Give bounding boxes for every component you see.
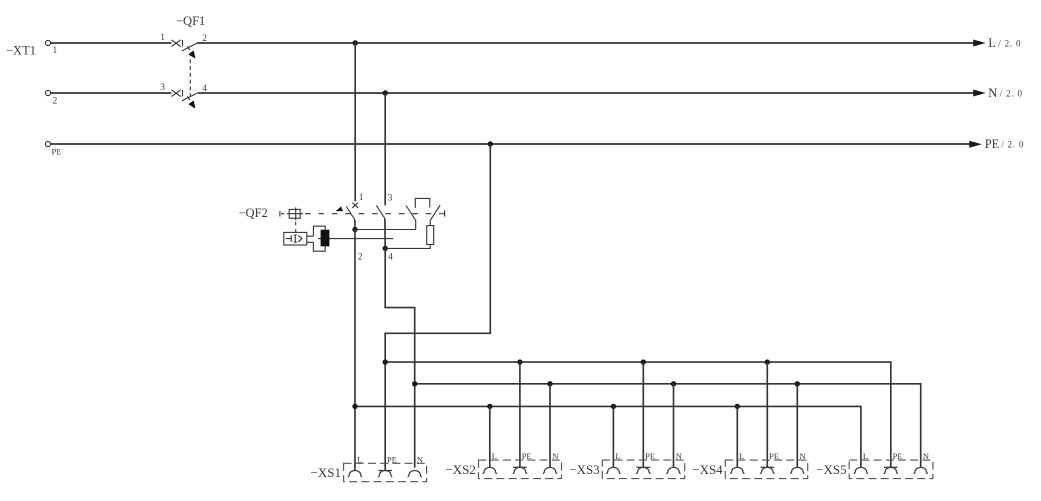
svg-text:−XS1: −XS1 [311, 465, 341, 480]
QF2 test switch left blade [406, 206, 416, 221]
svg-text:4: 4 [202, 84, 207, 94]
label N / 2.0 [988, 86, 1023, 100]
label PE / 2.0 [985, 137, 1025, 151]
QF2 pole 2 contact [376, 193, 392, 218]
node PE bus junction [488, 141, 493, 146]
QF2 CT core [321, 230, 330, 247]
QF2 test button square [287, 207, 303, 220]
svg-text:L: L [739, 451, 744, 461]
wire N feed down with jog [385, 248, 415, 467]
arrow N outgoing [973, 90, 986, 97]
svg-text:2: 2 [53, 96, 58, 106]
socket -XS2 PE contact [513, 466, 527, 468]
svg-text:PE: PE [387, 454, 397, 464]
QF2 test resistor [429, 220, 431, 225]
svg-text:−QF2: −QF2 [239, 206, 268, 220]
node N dist XS4 [795, 381, 800, 386]
node PE dist XS4 [765, 359, 770, 364]
socket -XS3 box [602, 460, 684, 479]
svg-text:2: 2 [202, 34, 207, 44]
socket -XS4 box [725, 460, 807, 479]
svg-text:N: N [417, 454, 423, 464]
node N dist XS1 [412, 381, 417, 386]
wire PE bus [51, 143, 971, 145]
svg-text:/ 2. 0: / 2. 0 [998, 38, 1021, 48]
arrow L outgoing [973, 40, 986, 47]
wire XS3 PE drop [642, 362, 644, 467]
wire XS4 L drop [736, 406, 738, 467]
wire XS2 N drop [549, 384, 551, 468]
QF2 test circuit wire from L out [355, 220, 416, 230]
node PE dist XS3 [641, 359, 646, 364]
QF2 linkage arrow [337, 207, 343, 211]
linkage QF1 dashed [189, 53, 191, 101]
svg-text:PE: PE [769, 451, 779, 461]
socket -XS4 PE contact [761, 466, 775, 468]
node L dist XS2 [487, 404, 492, 409]
svg-text:N: N [552, 451, 558, 461]
socket -XS4 N contact [790, 467, 804, 473]
socket -XS3 N contact [666, 467, 680, 473]
svg-text:−QF1: −QF1 [176, 14, 205, 28]
svg-text:PE: PE [893, 451, 903, 461]
socket -XS5 box [849, 460, 933, 479]
QF2 pole 1 contact [346, 193, 363, 220]
svg-text:−XS3: −XS3 [569, 462, 599, 477]
wire XS4 N drop [796, 384, 798, 468]
wire XS3 N drop [673, 384, 675, 468]
svg-text:−XS5: −XS5 [816, 462, 846, 477]
node PE dist XS1 [383, 359, 388, 364]
socket -XS3 PE contact [637, 466, 651, 468]
QF2 mechanism left tick [280, 211, 285, 217]
socket -XS2 L contact [483, 467, 497, 473]
wire PE feed down [385, 144, 490, 471]
wire N bus [51, 92, 975, 94]
arrow PE outgoing [969, 141, 982, 148]
socket -XS1 N contact [408, 471, 422, 477]
QF2 CT outline [313, 226, 325, 251]
wire L feed down to sockets [354, 230, 356, 471]
N distribution line [415, 384, 921, 468]
wire XS4 PE drop [766, 362, 768, 467]
svg-text:L: L [615, 451, 620, 461]
svg-text:L: L [863, 451, 868, 461]
terminal -XT1:2 [45, 90, 50, 95]
socket -XS3 L contact [606, 467, 620, 473]
socket -XS2 box [479, 460, 562, 479]
node QF2 N out [383, 246, 388, 251]
wire XS2 L drop [489, 406, 491, 467]
node L dist XS3 [611, 404, 616, 409]
node N dist XS3 [671, 381, 676, 386]
QF2 test bridge [415, 198, 430, 208]
svg-text:L: L [988, 36, 996, 50]
node N dist XS2 [547, 381, 552, 386]
svg-text:L: L [492, 451, 497, 461]
svg-text:−XS2: −XS2 [445, 462, 475, 477]
svg-text:N: N [800, 451, 806, 461]
wire XS3 L drop [612, 406, 614, 467]
svg-text:N: N [923, 451, 929, 461]
svg-text:L: L [357, 454, 362, 464]
socket -XS2 N contact [543, 467, 557, 473]
svg-text:PE: PE [522, 451, 532, 461]
svg-text:1: 1 [53, 46, 58, 56]
label L / 2.0 [988, 36, 1021, 50]
QF2 CT primary line [318, 238, 393, 240]
node L bus junction [353, 40, 358, 45]
socket -XS1 box [344, 463, 427, 481]
svg-text:PE: PE [985, 137, 1000, 151]
svg-text:PE: PE [52, 146, 62, 156]
terminal -XT1:1 [45, 40, 50, 45]
socket -XS1 PE contact [378, 470, 392, 472]
QF2 test resistor return wire [388, 245, 430, 249]
QF2 linkage dashed [305, 213, 441, 215]
node QF2 L out [352, 227, 357, 232]
PE distribution line [385, 362, 891, 467]
socket -XS5 N contact [914, 467, 928, 473]
svg-text:−XT1: −XT1 [6, 44, 36, 58]
svg-text:−XS4: −XS4 [692, 462, 723, 477]
svg-text:N: N [988, 86, 997, 100]
svg-text:3: 3 [388, 193, 393, 203]
svg-text:N: N [676, 451, 682, 461]
QF2 test switch right blade [430, 205, 440, 220]
socket -XS4 L contact [730, 467, 744, 473]
svg-text:/ 2. 0: / 2. 0 [1000, 88, 1023, 98]
wire XS2 PE drop [519, 362, 521, 467]
terminal -XT1:PE [45, 141, 50, 146]
QF2 pole 1 output wire [354, 220, 356, 230]
breaker QF1 pole 1-2 [160, 33, 207, 58]
socket -XS1 L contact [348, 471, 362, 477]
svg-text:/ 2. 0: / 2. 0 [1001, 140, 1024, 150]
L distribution line [355, 406, 861, 467]
svg-text:1: 1 [160, 33, 165, 43]
svg-text:PE: PE [645, 451, 655, 461]
svg-text:1: 1 [359, 193, 364, 203]
svg-text:4: 4 [388, 253, 393, 263]
QF2 pole 2 N input wire [384, 93, 386, 205]
QF2 vertical dashes to release [295, 222, 297, 232]
node N bus junction [383, 90, 388, 95]
QF2 pole 2 output wire [384, 219, 386, 249]
QF2 CT stubs [307, 236, 314, 242]
svg-text:3: 3 [160, 83, 165, 93]
QF2 linkage end tick [442, 210, 445, 216]
QF2 pole 1 L input wire [354, 43, 356, 201]
node PE dist XS2 [517, 359, 522, 364]
svg-text:2: 2 [358, 253, 363, 263]
QF2 release box I> [284, 232, 307, 245]
breaker QF1 pole 3-4 [160, 83, 207, 108]
socket -XS5 PE contact [884, 466, 898, 468]
socket -XS5 L contact [854, 467, 868, 473]
node L dist XS1 [352, 404, 357, 409]
node L dist XS4 [735, 404, 740, 409]
wire L bus [51, 42, 975, 44]
